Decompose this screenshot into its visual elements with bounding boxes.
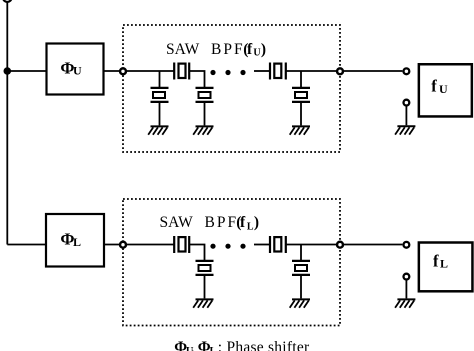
- svg-text:SAW: SAW: [160, 214, 194, 231]
- node circle filter L input: [120, 242, 126, 248]
- series SAW resonator 1U: [174, 63, 189, 80]
- label fL: [433, 252, 448, 271]
- dotted box SAW BPF fL: [123, 199, 340, 326]
- series SAW resonator 1L: [174, 236, 189, 253]
- svg-text:SAW: SAW: [166, 41, 200, 58]
- svg-text:BPF: BPF: [205, 214, 239, 231]
- wire node to series resonator 1L: [126, 244, 174, 246]
- node circle filter L output: [337, 242, 343, 248]
- svg-text:f: f: [433, 252, 439, 271]
- terminal output L: [404, 242, 410, 248]
- wire terminal U to ground: [405, 106, 407, 125]
- svg-text:L: L: [440, 257, 448, 271]
- wire PhiU to filter U: [104, 70, 124, 72]
- svg-text:L: L: [210, 346, 217, 351]
- ground shunt 1U: [148, 126, 168, 134]
- ellipsis dots U: [210, 70, 245, 75]
- wire shunt 1L to ground: [204, 275, 206, 299]
- svg-text:: Phase shifter: : Phase shifter: [218, 339, 310, 351]
- shunt SAW resonator 3U: [292, 88, 310, 102]
- wire shunt 2U to ground: [204, 102, 206, 126]
- caption phase shifter legend: [174, 339, 310, 351]
- node circle filter U input: [120, 68, 126, 74]
- wire shunt stem 2L: [300, 245, 302, 261]
- ground shunt 2U: [193, 126, 213, 134]
- wire res1L to elbow: [189, 245, 204, 261]
- svg-text:U: U: [73, 64, 82, 78]
- phase shifter PhiU box: [47, 44, 104, 95]
- wire res2U to output node: [286, 70, 340, 72]
- svg-text:,: ,: [191, 339, 195, 351]
- series SAW resonator 2U: [270, 63, 286, 80]
- svg-text:f: f: [247, 41, 253, 58]
- node circle filter U output: [337, 68, 343, 74]
- shunt SAW resonator 2U: [196, 88, 214, 102]
- wire res2L to output node: [286, 244, 340, 246]
- label PhiU: [60, 59, 82, 78]
- wire to output terminal U: [343, 70, 402, 72]
- wire left vertical rail: [6, 2, 8, 245]
- svg-text:f: f: [431, 77, 437, 96]
- terminal output U: [404, 68, 410, 74]
- label PhiL: [60, 230, 81, 249]
- load box fU: [419, 64, 472, 116]
- svg-text:): ): [261, 41, 266, 58]
- node junction dot upper split: [4, 67, 12, 75]
- wire node to series resonator 1 U: [126, 70, 174, 72]
- wire shunt 3U to ground: [300, 102, 302, 126]
- input terminal (cut off at top): [3, 0, 11, 2]
- label fU: [431, 77, 448, 97]
- label SAW BPF(fL): [160, 214, 260, 233]
- phase shifter PhiL box: [46, 214, 104, 267]
- label SAW BPF(fU): [166, 41, 266, 59]
- terminal ground U: [404, 100, 410, 106]
- ground shunt 2L: [290, 299, 310, 307]
- ellipsis dots L: [210, 244, 245, 249]
- wire dots to series resonator 2U: [254, 70, 270, 72]
- ground shunt 3U: [290, 126, 310, 134]
- wire to phase shifter U: [7, 70, 46, 72]
- svg-text:): ): [254, 214, 259, 231]
- terminal ground L: [404, 274, 410, 280]
- shunt SAW resonator 1U: [151, 88, 169, 102]
- svg-text:L: L: [247, 222, 254, 233]
- dotted box SAW BPF fU: [123, 25, 340, 152]
- shunt SAW resonator 2L: [292, 261, 310, 275]
- shunt SAW resonator 1L: [196, 261, 214, 275]
- ground shunt 1L: [193, 299, 213, 307]
- wire terminal L to ground: [405, 280, 407, 299]
- load box fL: [419, 243, 473, 292]
- wire shunt 2L to ground: [300, 275, 302, 299]
- series SAW resonator 2L: [270, 236, 286, 253]
- wire shunt 1U to ground: [159, 102, 161, 126]
- svg-text:L: L: [73, 235, 81, 249]
- svg-text:BPF: BPF: [211, 41, 245, 58]
- ground terminal U: [395, 126, 415, 134]
- wire dots to series resonator 2L: [254, 244, 270, 246]
- svg-text:U: U: [439, 82, 448, 96]
- wire to output terminal L: [343, 244, 402, 246]
- svg-text:U: U: [253, 48, 260, 59]
- wire shunt stem 1U: [159, 71, 161, 88]
- wire shunt stem 3U: [300, 71, 302, 88]
- ground terminal L: [395, 299, 415, 307]
- svg-text:f: f: [240, 214, 246, 231]
- wire to phase shifter L: [7, 244, 46, 246]
- wire res1U to elbow: [189, 71, 204, 88]
- wire PhiL to filter L: [104, 244, 123, 246]
